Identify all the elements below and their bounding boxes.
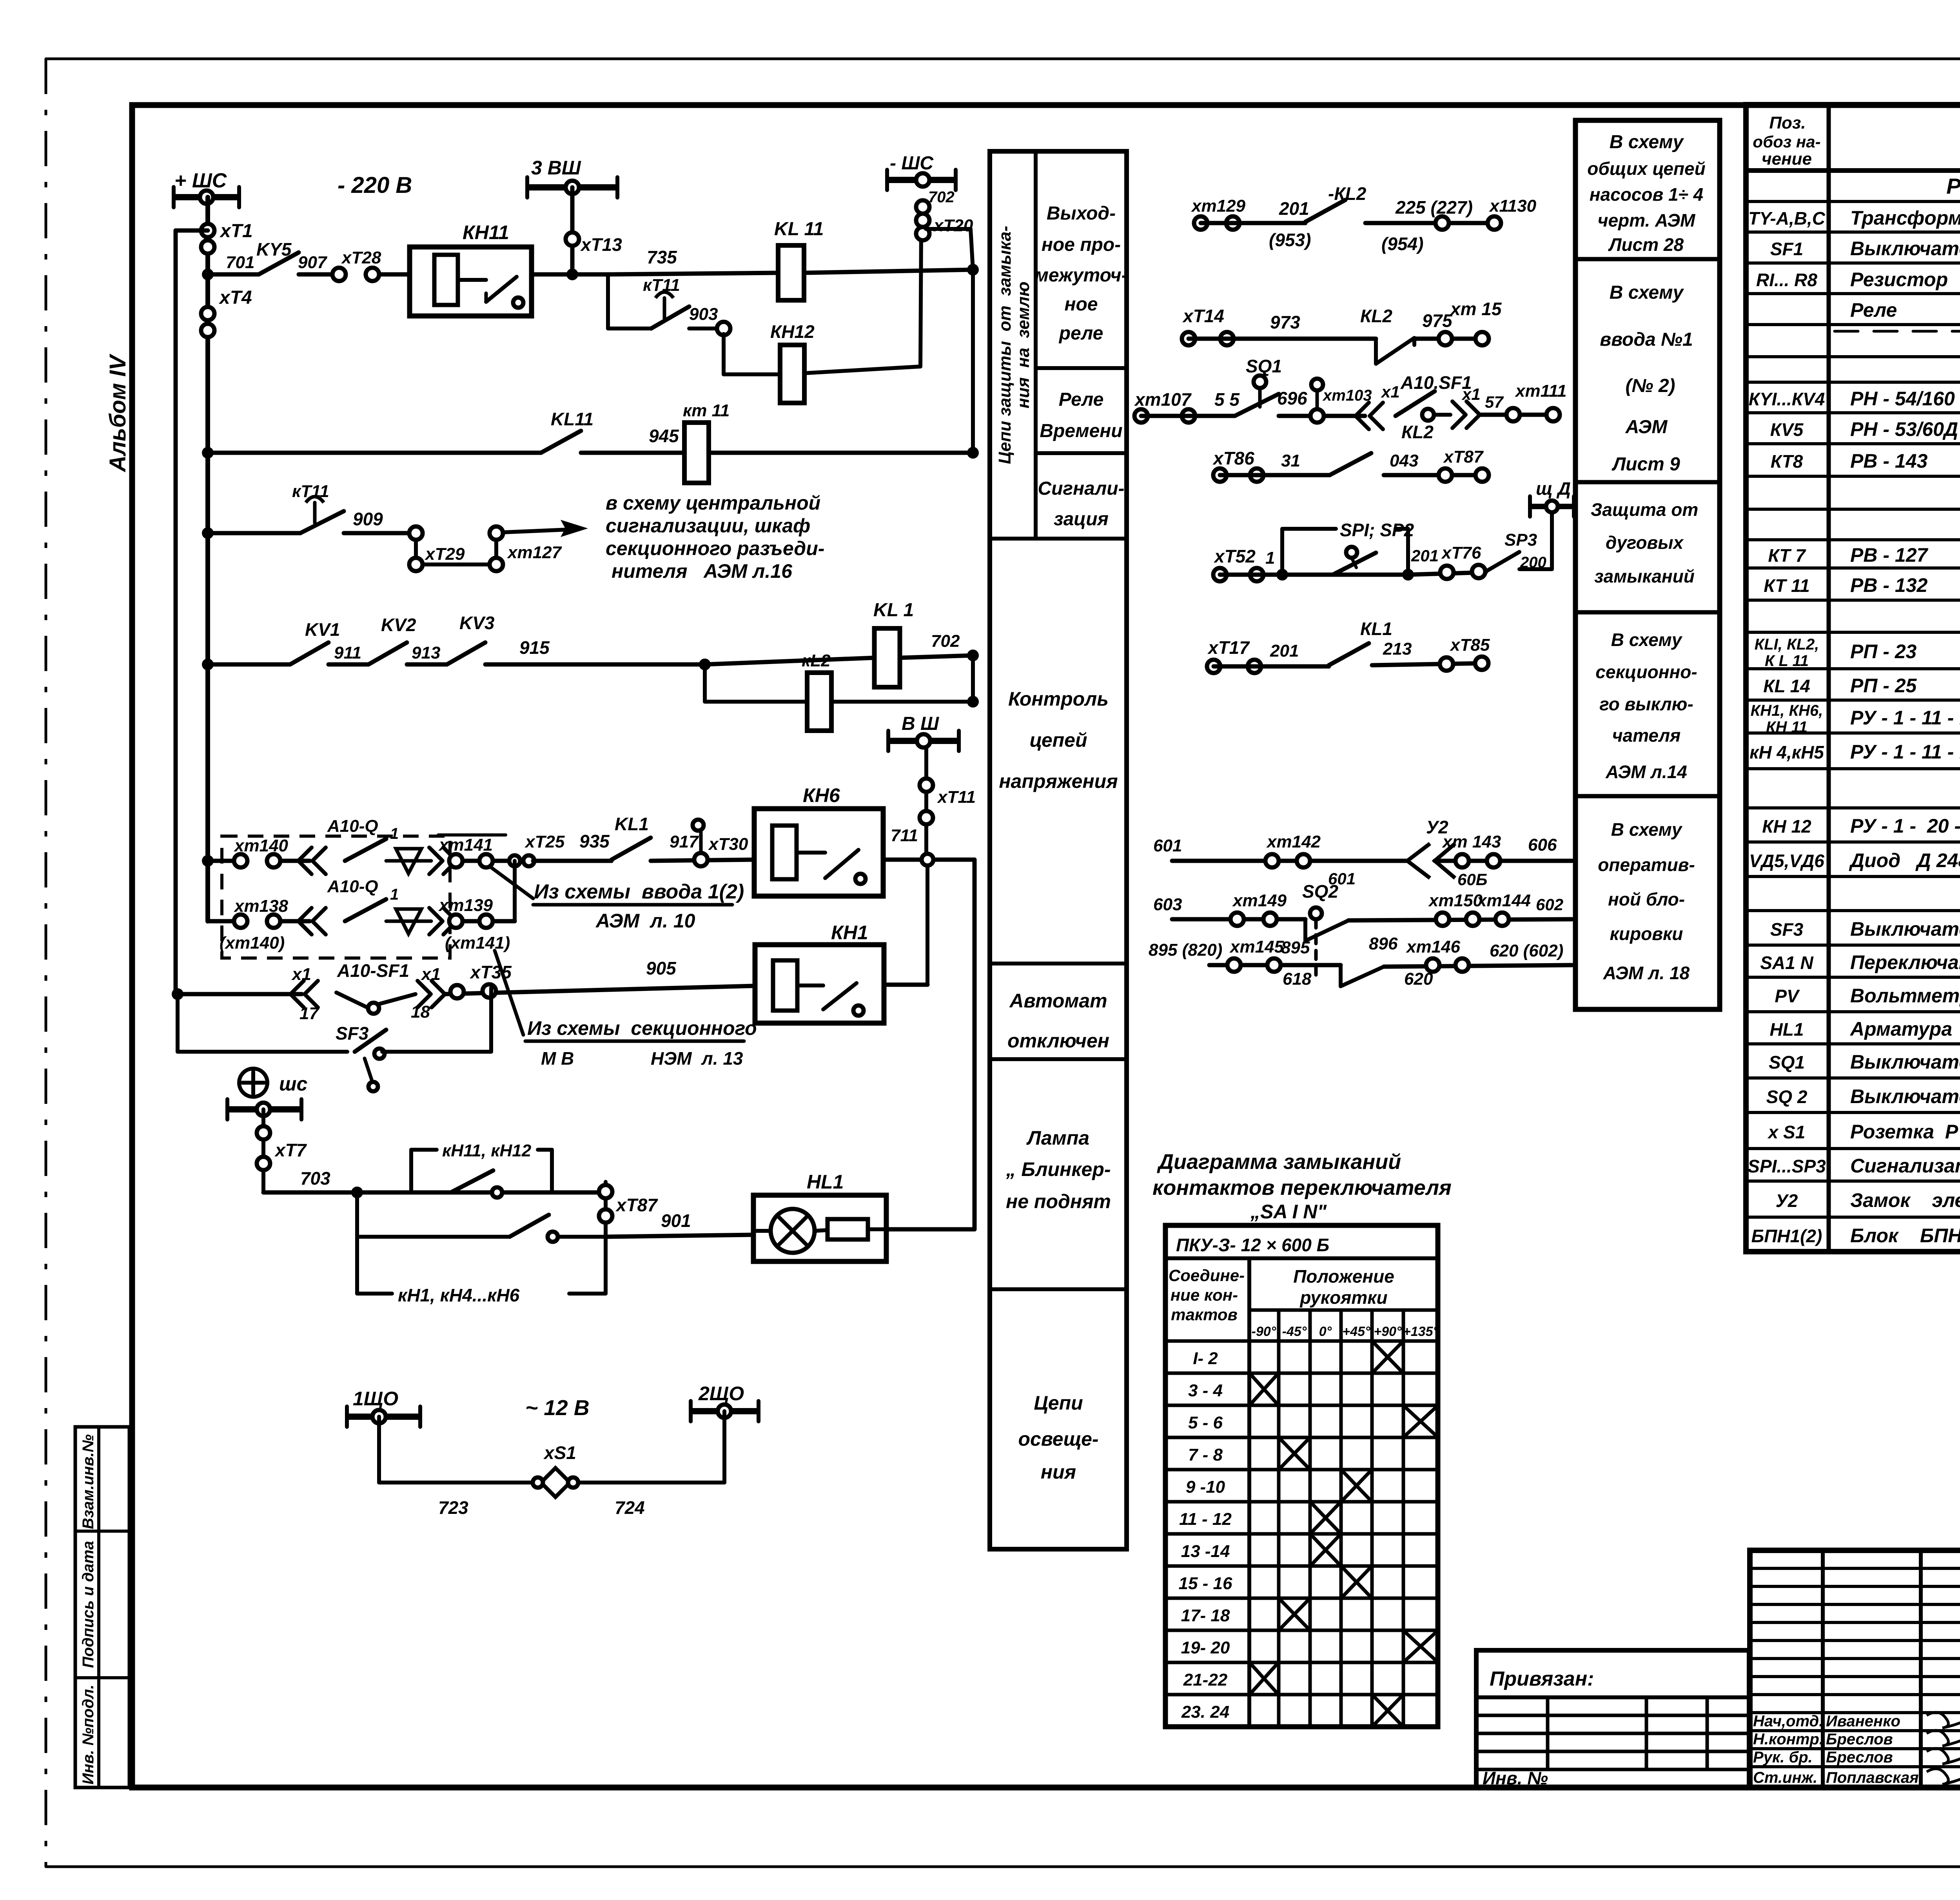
- svg-text:не поднят: не поднят: [1006, 1190, 1111, 1212]
- svg-text:Переключатель ПКУ-З-12 X 600: Переключатель ПКУ-З-12 X 600Б: [1850, 951, 1960, 973]
- tie wire between rung5 and rung6: [513, 861, 517, 921]
- svg-text:Реле: Реле: [1059, 389, 1104, 410]
- svg-text:HL1: HL1: [1770, 1019, 1804, 1040]
- svg-text:хт146: хт146: [1406, 937, 1461, 956]
- svg-text:кт 11: кт 11: [683, 401, 730, 420]
- svg-text:21-22: 21-22: [1183, 1670, 1228, 1689]
- svg-text:735: 735: [647, 247, 677, 267]
- contact A10.SF1: [1396, 391, 1435, 416]
- svg-text:в схему центральной: в схему центральной: [606, 492, 820, 514]
- svg-text:KY5: KY5: [256, 239, 292, 260]
- svg-text:ния: ния: [1041, 1461, 1076, 1483]
- svg-text:напряжения: напряжения: [999, 770, 1118, 792]
- svg-text:23. 24: 23. 24: [1181, 1702, 1229, 1722]
- svg-text:SQ1: SQ1: [1769, 1052, 1805, 1072]
- contact KL11: [541, 431, 581, 453]
- svg-text:В схему: В схему: [1610, 282, 1684, 303]
- svg-text:РВ - 132 -: РВ - 132 - 220В: [1850, 574, 1960, 596]
- svg-text:1: 1: [1265, 548, 1275, 568]
- terminal хт1: [201, 224, 214, 237]
- svg-text:895: 895: [1281, 938, 1310, 957]
- svg-text:Автомат: Автомат: [1009, 990, 1107, 1012]
- box: Сигнализация: [990, 537, 1127, 541]
- svg-text:кТ11: кТ11: [292, 482, 329, 501]
- terminal хт139: [455, 919, 515, 924]
- rung4: KV1 KV2 KV3 / 915: [202, 659, 214, 670]
- box: Выходное промежуточное реле: [1036, 366, 1127, 370]
- svg-text:общих цепей: общих цепей: [1587, 158, 1705, 179]
- relay unit КН11: [410, 247, 532, 316]
- svg-text:КL 14: КL 14: [1763, 676, 1810, 696]
- svg-text:Замок электромагнитный: Замок электромагнитный: [1850, 1189, 1960, 1211]
- svg-text:хТ87: хТ87: [1443, 447, 1484, 466]
- svg-text:043: 043: [1390, 451, 1418, 470]
- svg-text:хт103: хт103: [1322, 387, 1372, 404]
- svg-text:A10-Q: A10-Q: [327, 877, 378, 896]
- svg-text:Реле: Реле: [1850, 299, 1897, 321]
- svg-text:Сигнализатор дуговых замыкани: Сигнализатор дуговых замыканий: [1850, 1155, 1960, 1177]
- fragment 1: хт129 201 -KL2 225(227) х1130: [1194, 216, 1207, 230]
- svg-text:обоз на-: обоз на-: [1753, 132, 1820, 151]
- svg-text:хт138: хт138: [234, 896, 289, 916]
- svg-text:VД5,VД6: VД5,VД6: [1749, 851, 1824, 871]
- relay coil KL1: [705, 658, 875, 664]
- svg-text:60Б: 60Б: [1457, 870, 1487, 889]
- svg-text:(№ 2): (№ 2): [1625, 376, 1675, 396]
- rung5: A10-Q input circuit 1: [202, 855, 214, 867]
- contact KV1: [290, 642, 328, 664]
- svg-text:хТ28: хТ28: [341, 248, 381, 267]
- svg-text:Инв. №подл.: Инв. №подл.: [80, 1685, 97, 1785]
- svg-text:17- 18: 17- 18: [1181, 1606, 1230, 1625]
- svg-text:(954): (954): [1381, 234, 1423, 254]
- svg-text:KL11: KL11: [551, 409, 593, 429]
- tie wire КН1 to 711 node: [926, 866, 929, 985]
- svg-text:Н.контр.: Н.контр.: [1753, 1731, 1824, 1748]
- svg-text:9 -10: 9 -10: [1186, 1477, 1225, 1497]
- wire: vertical supply bus V1: [205, 197, 210, 921]
- svg-text:У2: У2: [1776, 1190, 1798, 1211]
- note: из схемы ввода: [491, 867, 533, 898]
- svg-text:603: 603: [1153, 895, 1182, 914]
- svg-text:х1: х1: [291, 965, 311, 984]
- svg-text:Лист 28: Лист 28: [1608, 234, 1684, 255]
- svg-text:хТ7: хТ7: [274, 1140, 307, 1160]
- svg-text:Выключатель: Выключатель: [1850, 238, 1960, 260]
- contact lower branch: [510, 1215, 549, 1237]
- svg-text:SPІ...SP3: SPІ...SP3: [1748, 1156, 1826, 1176]
- box: Реле времени: [1036, 451, 1127, 455]
- signature grid: [1821, 1550, 1825, 1787]
- box: Контроль цепей напряжения: [990, 962, 1127, 965]
- svg-text:РУ - 1 - 11 - 1УЗ: РУ - 1 - 11 - 1УЗ 0,1А: [1850, 707, 1960, 729]
- svg-text:КН11: КН11: [463, 221, 509, 243]
- svg-text:ние кон-: ние кон-: [1171, 1286, 1238, 1304]
- branch to KT11 timer contact: [606, 274, 610, 328]
- svg-text:17: 17: [299, 1004, 319, 1023]
- upper branch КН11,КН12 contacts: [409, 1150, 413, 1192]
- rung6: A10-Q input circuit 2: [208, 919, 241, 924]
- svg-text:+135°: +135°: [1403, 1324, 1439, 1339]
- svg-text:х1: х1: [421, 965, 441, 984]
- svg-text:хт 15: хт 15: [1449, 299, 1502, 319]
- svg-text:Нач,отд.: Нач,отд.: [1753, 1713, 1823, 1730]
- svg-text:Времени: Времени: [1040, 421, 1122, 441]
- svg-text:Привязан:: Привязан:: [1490, 1668, 1594, 1690]
- terminal хт87 vertical: [604, 1182, 608, 1237]
- svg-text:БПН1(2): БПН1(2): [1751, 1226, 1822, 1246]
- svg-text:хТ52: хТ52: [1213, 546, 1256, 566]
- svg-text:SQ 2: SQ 2: [1766, 1087, 1808, 1107]
- svg-text:-45°: -45°: [1282, 1324, 1307, 1339]
- changeover contact KL2: [1374, 339, 1378, 364]
- svg-text:SA1 N: SA1 N: [1760, 953, 1813, 973]
- svg-text:чателя: чателя: [1612, 725, 1681, 746]
- svg-text:РУ - 1 - 11 - 1УЗ - 220: РУ - 1 - 11 - 1УЗ - 220 В: [1850, 741, 1960, 763]
- svg-text:5 - 6: 5 - 6: [1188, 1413, 1223, 1432]
- svg-text:(хт141): (хт141): [445, 933, 510, 953]
- svg-text:хт142: хт142: [1266, 832, 1321, 851]
- svg-text:хт149: хт149: [1232, 891, 1287, 910]
- svg-text:ное про-: ное про-: [1042, 234, 1121, 255]
- svg-text:975: 975: [1422, 310, 1453, 331]
- svg-text:601: 601: [1153, 836, 1182, 855]
- svg-text:702: 702: [931, 632, 960, 651]
- svg-text:цепей: цепей: [1029, 729, 1087, 751]
- supply symbol ⊕ ШС: [239, 1069, 267, 1097]
- svg-text:225 (227): 225 (227): [1395, 197, 1473, 218]
- svg-text:HL1: HL1: [807, 1171, 844, 1193]
- svg-text:ввода №1: ввода №1: [1600, 329, 1693, 350]
- connector х1 left: [1356, 403, 1369, 429]
- svg-text:Резистор: Резистор: [1850, 269, 1948, 290]
- svg-text:905: 905: [646, 958, 677, 978]
- svg-text:3 - 4: 3 - 4: [1188, 1381, 1223, 1400]
- svg-text:хТ29: хТ29: [425, 544, 465, 564]
- svg-text:Арматура І.Е 32 522 11У2 -220: Арматура І.Е 32 522 11У2 -220 В: [1849, 1018, 1960, 1040]
- svg-text:Иваненко: Иваненко: [1826, 1713, 1900, 1730]
- svg-text:Альбом IV: Альбом IV: [105, 354, 131, 473]
- svg-text:Из схемы ввода 1(2): Из схемы ввода 1(2): [534, 880, 744, 903]
- svg-text:Трансформатор напряжения: Трансформатор напряжения: [1850, 207, 1960, 229]
- dashed marshalling box around A10-Q rungs: [222, 836, 450, 958]
- outer thin sheet border: [46, 58, 1960, 60]
- svg-text:696: 696: [1277, 388, 1307, 408]
- contact A10-SF1: [336, 993, 370, 1009]
- bus 1ЩО: [347, 1414, 420, 1420]
- svg-text:Вольтметр Э-355 Шкала 0: Вольтметр Э-355 Шкала 0÷ 6000В: [1850, 985, 1960, 1007]
- relay coil KL2 branch: [703, 664, 707, 702]
- wire down from ШС: [261, 1109, 265, 1192]
- svg-text:секционного разъеди-: секционного разъеди-: [606, 537, 824, 559]
- svg-text:Выключатель АП50 - 2МТ: Выключатель АП50 - 2МТ Ур 2,5А: [1850, 918, 1960, 940]
- svg-text:Блок БПН - 11/1У4: Блок БПН - 11/1У4: [1850, 1225, 1960, 1247]
- fragment 2: хт14 973 KL2 975 хт15: [1182, 332, 1195, 345]
- svg-text:ния на землю: ния на землю: [1014, 281, 1033, 408]
- breaker contact SF3: [355, 1030, 386, 1052]
- svg-text:PV: PV: [1775, 986, 1800, 1006]
- svg-text:Розетка Р Ш- Ц - 2 - 0 - 00 -: Розетка Р Ш- Ц - 2 - 0 - 00 - 6/ 220: [1850, 1121, 1960, 1143]
- svg-text:201: 201: [1411, 546, 1439, 565]
- svg-text:хт111: хт111: [1515, 381, 1566, 401]
- relay coil KL11 on rung1: [778, 245, 804, 300]
- terminal хт25: [509, 855, 520, 866]
- svg-text:Защита от: Защита от: [1591, 499, 1699, 520]
- contact KY5: [259, 252, 299, 274]
- arc detectors SP1;SP2 loop: [1280, 529, 1284, 575]
- svg-text:896: 896: [1369, 934, 1398, 953]
- svg-text:сигнализации, шкаф: сигнализации, шкаф: [606, 515, 810, 537]
- svg-text:Выход-: Выход-: [1047, 203, 1116, 224]
- relay unit КН1: [755, 945, 884, 1023]
- fragment 4: хт86 31 KL2 043 хт87: [1213, 468, 1227, 482]
- svg-text:Выключатель конечный: Выключатель конечный: [1850, 1085, 1960, 1107]
- svg-text:901: 901: [661, 1210, 691, 1231]
- svg-text:отключен: отключен: [1007, 1030, 1109, 1052]
- svg-text:+ ШС: + ШС: [174, 169, 227, 192]
- svg-text:57: 57: [1485, 393, 1504, 411]
- svg-text:чение: чение: [1762, 149, 1812, 169]
- svg-text:606: 606: [1528, 835, 1557, 855]
- svg-text:Ст.инж.: Ст.инж.: [1753, 1769, 1817, 1786]
- svg-text:хТ30: хТ30: [708, 835, 748, 854]
- svg-text:5 5: 5 5: [1214, 389, 1240, 410]
- panel bus ЩД: [1550, 514, 1554, 569]
- node хт13 junction: [566, 269, 578, 280]
- svg-text:кН11, кН12: кН11, кН12: [442, 1141, 532, 1160]
- contact A10-Q: [345, 839, 386, 861]
- svg-text:618: 618: [1283, 969, 1312, 989]
- contact SP with stem: [1333, 553, 1376, 575]
- bus bar ШС: [227, 1106, 301, 1112]
- svg-text:КТ 7: КТ 7: [1768, 545, 1806, 566]
- wire up to -ШС drop: [920, 229, 921, 367]
- svg-text:723: 723: [438, 1497, 468, 1518]
- lamp assembly HL1: [753, 1195, 886, 1261]
- svg-text:хТ17: хТ17: [1207, 637, 1250, 658]
- fragment 3: хт107 55 SQ1 696 хт103 х1 A10.SF1 х1 57 хт111: [1134, 409, 1148, 423]
- relay unit КН6: [754, 809, 883, 896]
- diode symbol: [396, 909, 421, 934]
- box: Автомат отключен: [990, 1057, 1127, 1061]
- svg-text:31: 31: [1281, 451, 1300, 470]
- svg-text:РУ - 1 - 20 - 1: РУ - 1 - 20 - 1 0,016А: [1850, 815, 1960, 837]
- wire -ШС branch to rung1: [926, 227, 971, 231]
- svg-text:KL 1: KL 1: [873, 600, 914, 621]
- svg-text:освеще-: освеще-: [1018, 1428, 1098, 1450]
- terminal jog хт29 / хт127: [409, 526, 423, 540]
- svg-text:АЭМ л.14: АЭМ л.14: [1605, 762, 1687, 782]
- svg-text:хт150: хт150: [1428, 891, 1483, 910]
- breaker SF3 branch: [176, 994, 180, 1052]
- svg-text:Инв. №: Инв. №: [1483, 1768, 1548, 1788]
- svg-text:Бреслов: Бреслов: [1826, 1749, 1893, 1766]
- svg-text:секционно-: секционно-: [1595, 662, 1697, 682]
- svg-text:КL2: КL2: [1401, 422, 1434, 442]
- svg-text:213: 213: [1383, 639, 1412, 659]
- svg-text:АЭМ: АЭМ: [1625, 417, 1668, 437]
- svg-text:620 (602): 620 (602): [1490, 941, 1563, 960]
- svg-text:хТ13: хТ13: [580, 234, 622, 255]
- svg-text:Подпись и дата: Подпись и дата: [80, 1541, 97, 1668]
- svg-text:І- 2: І- 2: [1193, 1349, 1218, 1368]
- svg-text:2ЩО: 2ЩО: [698, 1383, 744, 1405]
- svg-text:201: 201: [1270, 641, 1299, 661]
- contact on rung 703: [451, 1170, 493, 1192]
- svg-text:SQ2: SQ2: [1302, 881, 1338, 902]
- connector х1 right: [1452, 401, 1466, 428]
- svg-text:935: 935: [579, 831, 610, 851]
- svg-text:915: 915: [519, 637, 550, 658]
- limit switch SQ1: [1235, 394, 1279, 416]
- svg-text:19- 20: 19- 20: [1181, 1638, 1230, 1657]
- svg-text:SP3: SP3: [1504, 530, 1537, 550]
- svg-text:903: 903: [689, 305, 718, 324]
- svg-text:РН - 53/60Д: РН - 53/60Д: [1850, 418, 1958, 440]
- wire stub to V2: [176, 229, 208, 233]
- contact A10-Q: [345, 899, 386, 921]
- svg-text:KV1: KV1: [305, 619, 340, 640]
- box: Лампа Блинкер не поднят: [990, 1287, 1127, 1291]
- terminal хт138: [234, 915, 247, 928]
- title block: [1750, 1550, 1960, 1787]
- svg-text:A10.SF1: A10.SF1: [1400, 372, 1472, 393]
- connector chevrons: [298, 847, 312, 874]
- svg-text:М В: М В: [541, 1048, 574, 1069]
- svg-text:КТ8: КТ8: [1771, 451, 1803, 472]
- svg-text:724: 724: [615, 1497, 645, 1518]
- svg-text:черт. АЭМ: черт. АЭМ: [1598, 210, 1696, 230]
- terminal хт141: [455, 859, 533, 863]
- rung7: x1 A10-SF1: [172, 988, 183, 1000]
- svg-text:КН12: КН12: [770, 321, 815, 342]
- contact KL1: [612, 838, 651, 860]
- svg-text:-КL2: -КL2: [1328, 183, 1367, 204]
- return wire up: [886, 1227, 975, 1232]
- svg-text:оператив-: оператив-: [1598, 855, 1695, 875]
- rung3: КТ11 contact / 909 / хт29 хт127: [202, 527, 214, 539]
- svg-text:Бреслов: Бреслов: [1826, 1731, 1893, 1748]
- svg-text:хТ20: хТ20: [933, 216, 973, 235]
- svg-text:х S1: х S1: [1767, 1122, 1806, 1142]
- svg-text:хТ1: хТ1: [219, 221, 253, 241]
- svg-text:КН1, КН6,: КН1, КН6,: [1751, 702, 1823, 719]
- svg-text:Цепи: Цепи: [1034, 1392, 1083, 1414]
- svg-text:1ЩО: 1ЩО: [353, 1388, 398, 1410]
- svg-text:кН1, кН4...кН6: кН1, кН4...кН6: [398, 1285, 520, 1305]
- привязан box: [1476, 1650, 1749, 1787]
- contact KV2: [368, 642, 407, 664]
- svg-text:TY-А,В,C: TY-А,В,C: [1748, 208, 1826, 229]
- contact KV3: [447, 642, 485, 664]
- svg-text:+90°: +90°: [1374, 1324, 1402, 1339]
- svg-text:дуговых: дуговых: [1606, 532, 1684, 553]
- svg-text:зация: зация: [1054, 509, 1109, 530]
- svg-text:KV3: KV3: [459, 613, 495, 633]
- svg-text:кТ11: кТ11: [643, 276, 680, 295]
- terminal хт140: [234, 854, 247, 867]
- svg-text:хт129: хт129: [1191, 196, 1246, 216]
- svg-text:РП - 25 ~: РП - 25 ~ 220В: [1850, 675, 1960, 697]
- svg-text:701: 701: [226, 253, 254, 272]
- connector chevrons: [429, 847, 443, 874]
- svg-text:Диод Д 248 Б: Диод Д 248 Б: [1849, 849, 1960, 871]
- svg-text:щ Д: щ Д: [1536, 478, 1571, 499]
- svg-text:контактов переключателя: контактов переключателя: [1152, 1176, 1452, 1200]
- svg-text:SPІ; SP2: SPІ; SP2: [1340, 520, 1414, 540]
- svg-text:Соедине-: Соедине-: [1169, 1266, 1245, 1285]
- wire 711: [883, 858, 975, 862]
- svg-text:(хт140): (хт140): [220, 933, 285, 953]
- svg-text:KV2: KV2: [381, 615, 416, 635]
- node split to KL1/KL2: [699, 659, 711, 670]
- svg-text:SQ1: SQ1: [1246, 356, 1282, 376]
- svg-text:Выключатель конечный ВПК 4111У: Выключатель конечный ВПК 4111У3 иоп. 3: [1850, 1051, 1960, 1073]
- svg-text:Сигнали-: Сигнали-: [1038, 478, 1124, 499]
- node: rung1 tap: [202, 269, 214, 280]
- svg-text:тактов: тактов: [1171, 1305, 1238, 1324]
- SA1N closure table: [1165, 1225, 1438, 1727]
- svg-text:3 ВШ: 3 ВШ: [531, 157, 581, 179]
- svg-text:ное: ное: [1064, 294, 1098, 315]
- svg-text:Поплавская: Поплавская: [1826, 1769, 1919, 1786]
- svg-text:~ 12 В: ~ 12 В: [525, 1396, 590, 1420]
- svg-text:РП - 23 -: РП - 23 - 220 В: [1850, 641, 1960, 662]
- svg-text:хТ85: хТ85: [1450, 635, 1490, 655]
- svg-text:КYІ...КV4: КYІ...КV4: [1749, 389, 1825, 409]
- timer contact КТ11: [300, 511, 344, 533]
- svg-text:КН 12: КН 12: [1762, 816, 1811, 837]
- svg-text:13 -14: 13 -14: [1181, 1542, 1230, 1561]
- svg-text:реле: реле: [1058, 323, 1103, 344]
- lock У2 contact: [1407, 844, 1430, 878]
- svg-text:ной бло-: ной бло-: [1608, 889, 1685, 909]
- svg-text:шс: шс: [279, 1073, 307, 1095]
- svg-text:909: 909: [353, 509, 383, 529]
- svg-text:х1130: х1130: [1489, 196, 1537, 216]
- timer contact КТ11: [651, 307, 689, 328]
- terminal хт35: [445, 986, 755, 994]
- svg-text:0°: 0°: [1319, 1324, 1332, 1339]
- socket хS1: [541, 1468, 570, 1497]
- svg-text:межуточ-: межуточ-: [1034, 265, 1127, 286]
- svg-text:насосов 1÷ 4: насосов 1÷ 4: [1590, 184, 1704, 205]
- svg-text:хТ76: хТ76: [1441, 543, 1481, 563]
- function column outer box: [990, 151, 1127, 1549]
- svg-text:хт144: хт144: [1476, 891, 1531, 910]
- svg-text:SF3: SF3: [336, 1023, 369, 1043]
- svg-text:кировки: кировки: [1610, 924, 1683, 944]
- svg-text:хт127: хт127: [507, 543, 563, 562]
- svg-text:КН1: КН1: [831, 922, 868, 944]
- svg-text:хТ87: хТ87: [615, 1195, 658, 1215]
- svg-text:913: 913: [412, 643, 440, 662]
- svg-text:Лампа: Лампа: [1026, 1127, 1089, 1149]
- svg-text:1: 1: [390, 825, 399, 842]
- svg-text:907: 907: [298, 253, 328, 272]
- svg-text:РУ - 6 кВ: РУ - 6 кВ: [1946, 174, 1960, 198]
- svg-text:702: 702: [928, 189, 955, 206]
- svg-text:Рук. бр.: Рук. бр.: [1753, 1749, 1813, 1766]
- svg-text:КV5: КV5: [1770, 419, 1804, 440]
- svg-text:хт107: хт107: [1134, 389, 1192, 410]
- note: из схемы секционного: [495, 951, 523, 1035]
- bus ВШ: [888, 738, 959, 744]
- svg-text:хТ4: хТ4: [218, 287, 252, 308]
- svg-text:201: 201: [1279, 198, 1309, 219]
- svg-text:АЭМ л. 18: АЭМ л. 18: [1603, 963, 1690, 983]
- label loop КН1,КН4...КН6: [355, 1237, 359, 1294]
